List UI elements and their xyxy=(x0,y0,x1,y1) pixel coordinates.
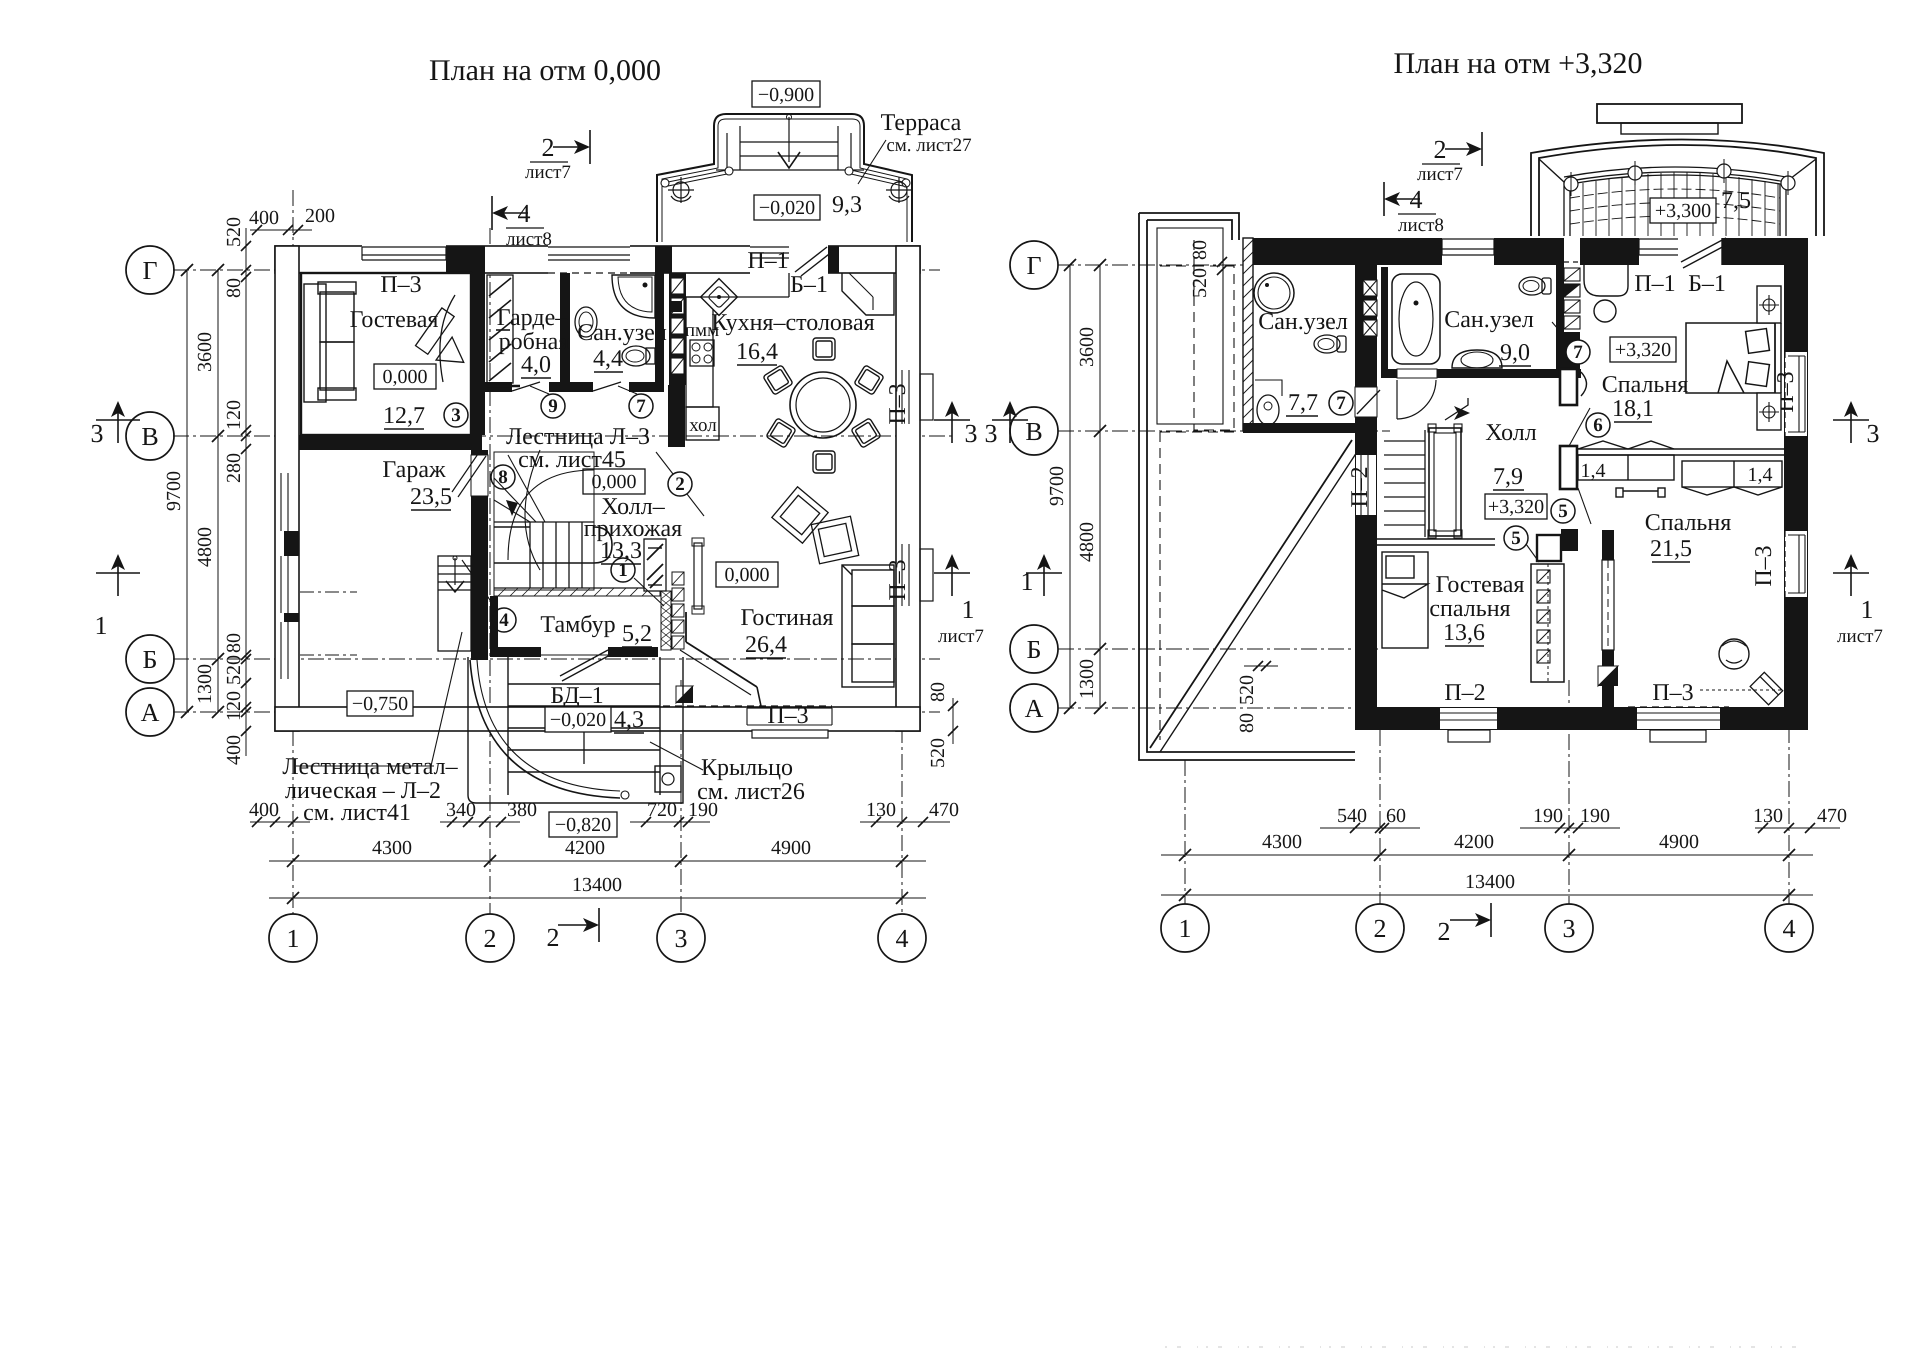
wall гардеробная/санузел partition xyxy=(560,273,570,390)
divider wall спальня 18,1/21,5 xyxy=(1577,448,1784,450)
window П-3 right wall bedroom 21,5 xyxy=(1751,531,1807,597)
sofa living room xyxy=(842,565,894,687)
metal stair in garage xyxy=(438,556,471,651)
svg-text:3: 3 xyxy=(1867,419,1880,448)
svg-text:В: В xyxy=(1025,417,1042,446)
svg-text:7: 7 xyxy=(1336,393,1346,414)
bottom wall windows right plan xyxy=(1440,680,1497,742)
stair door arc right plan xyxy=(1397,380,1436,419)
svg-text:5,2: 5,2 xyxy=(622,621,652,647)
axis line 1 xyxy=(292,190,294,914)
door jamb pier холл/спальня 18,1 xyxy=(1560,369,1577,405)
svg-text:хол: хол xyxy=(689,415,717,436)
svg-text:12,7: 12,7 xyxy=(383,403,425,429)
svg-text:80: 80 xyxy=(1236,713,1258,733)
axis bubble 4 xyxy=(878,914,926,962)
svg-text:520: 520 xyxy=(223,655,245,685)
porch up arrow xyxy=(583,716,585,764)
sofa Гостевая xyxy=(304,282,356,402)
svg-text:4,0: 4,0 xyxy=(521,352,551,378)
svg-text:П–2: П–2 xyxy=(1347,466,1373,507)
wardrobe hatch гардеробная xyxy=(487,275,513,383)
bottom dim row 13400 right xyxy=(1161,894,1813,896)
terrace entry arrow xyxy=(788,117,790,162)
section mark 3 right xyxy=(951,403,953,443)
svg-text:520: 520 xyxy=(1189,268,1211,298)
wall санузел 9,0 west xyxy=(1381,267,1388,377)
wall кухня west black xyxy=(669,273,686,385)
axis line 1 right xyxy=(1184,760,1186,904)
svg-text:80: 80 xyxy=(927,682,949,702)
svg-text:П–3: П–3 xyxy=(380,272,421,298)
section mark 3 left xyxy=(117,403,119,443)
svg-text:0,000: 0,000 xyxy=(725,564,770,586)
pedestal sink санузел 7,7 xyxy=(1257,395,1279,425)
svg-text:Гарде–: Гарде– xyxy=(497,305,568,331)
vent boxes санузел 9,0 east wall xyxy=(1564,268,1580,329)
garage right wall xyxy=(471,450,488,660)
svg-text:лист8: лист8 xyxy=(1398,215,1444,236)
svg-text:БД–1: БД–1 xyxy=(550,683,603,709)
svg-text:Сан.узел: Сан.узел xyxy=(577,320,667,346)
svg-text:1: 1 xyxy=(1021,567,1034,596)
svg-text:0,000: 0,000 xyxy=(383,366,428,388)
axis bubble 2 right xyxy=(1356,904,1404,952)
bed спальня 18,1 xyxy=(1686,323,1781,393)
vertical dim line 9700 xyxy=(186,270,188,712)
svg-text:540: 540 xyxy=(1337,805,1367,827)
svg-text:4200: 4200 xyxy=(1454,831,1494,853)
svg-text:Б: Б xyxy=(143,645,158,674)
roof inner solid rect top xyxy=(1157,228,1223,424)
bottom wall window П-3 xyxy=(663,703,832,738)
svg-text:−0,020: −0,020 xyxy=(550,709,606,731)
svg-text:4900: 4900 xyxy=(1659,831,1699,853)
svg-text:Лестница метал–: Лестница метал– xyxy=(282,754,458,780)
top wall pier black 1 xyxy=(446,246,485,273)
axis bubble Б xyxy=(126,635,174,683)
svg-text:400: 400 xyxy=(223,735,245,765)
terrace right plan arch xyxy=(1531,140,1824,237)
window top wall right plan 1 xyxy=(1442,237,1494,266)
svg-text:Терраса: Терраса xyxy=(881,110,962,136)
hall/living wall upper xyxy=(668,385,685,447)
porch curved rail xyxy=(470,660,620,798)
svg-text:2: 2 xyxy=(1438,917,1451,946)
terrace door П-1 xyxy=(750,245,789,274)
svg-text:П–1: П–1 xyxy=(747,248,788,274)
terrace bolts right plan xyxy=(1564,164,1795,191)
bottom dim row 4300/4200/4900 xyxy=(269,860,926,862)
level box -0,820 xyxy=(549,812,617,837)
svg-text:лист7: лист7 xyxy=(525,162,571,183)
roof dashed lines xyxy=(1160,240,1240,740)
svg-text:Г: Г xyxy=(142,256,157,285)
svg-text:520: 520 xyxy=(223,217,245,247)
svg-text:2: 2 xyxy=(542,133,555,162)
svg-text:Крыльцо: Крыльцо xyxy=(701,755,793,781)
svg-text:200: 200 xyxy=(305,205,335,227)
svg-text:4300: 4300 xyxy=(1262,831,1302,853)
axis line 3 right xyxy=(1568,680,1570,904)
axis bubble 3 xyxy=(657,914,705,962)
wall between гостевая спальня and спальня 21,5 xyxy=(1602,530,1614,707)
section mark 1 left of right plan xyxy=(1043,556,1045,596)
svg-text:190: 190 xyxy=(1533,805,1563,827)
svg-text:План на отм 0,000: План на отм 0,000 xyxy=(429,54,661,87)
svg-text:8: 8 xyxy=(498,467,508,488)
axis bubble 2 xyxy=(466,914,514,962)
svg-text:120: 120 xyxy=(223,691,245,721)
marker 2 xyxy=(668,472,692,496)
svg-text:26,4: 26,4 xyxy=(745,632,787,658)
marker 3 circle xyxy=(444,403,468,427)
axis line 2 xyxy=(489,228,491,914)
svg-text:7,9: 7,9 xyxy=(1493,464,1523,490)
terrace labels right plan xyxy=(1650,198,1716,223)
svg-text:Холл: Холл xyxy=(1485,420,1536,446)
svg-text:3: 3 xyxy=(985,419,998,448)
svg-text:1: 1 xyxy=(287,924,300,953)
svg-text:4,4: 4,4 xyxy=(593,346,623,372)
svg-text:Б: Б xyxy=(1027,635,1042,664)
svg-text:+3,320: +3,320 xyxy=(1615,339,1671,361)
axis line В right xyxy=(1058,430,1390,432)
porch xyxy=(468,657,683,803)
svg-text:5: 5 xyxy=(1558,501,1568,522)
kitchen stove xyxy=(690,340,714,366)
axis bubble 3 right xyxy=(1545,904,1593,952)
axis line Б right xyxy=(1058,648,1380,650)
right wall window П-3 living xyxy=(885,544,933,606)
right wall window П-3 kitchen xyxy=(885,370,933,425)
svg-text:+3,300: +3,300 xyxy=(1655,200,1711,222)
svg-text:7: 7 xyxy=(1573,342,1583,363)
marker 5 right plan b xyxy=(1504,526,1528,550)
bottom dim row 4300/4200/4900 right xyxy=(1161,854,1813,856)
terrace chimney top xyxy=(1597,104,1742,123)
svg-text:80: 80 xyxy=(1189,240,1211,260)
window П-3 right wall bedroom 18,1 xyxy=(1773,352,1807,436)
axis line Б xyxy=(173,658,940,660)
vestibule walls xyxy=(490,596,498,656)
svg-text:−0,820: −0,820 xyxy=(555,814,611,836)
right wall pier black xyxy=(1784,436,1808,531)
svg-text:лист7: лист7 xyxy=(1417,164,1463,185)
top wall pier black 2 xyxy=(655,246,672,273)
svg-text:П–3: П–3 xyxy=(767,703,808,729)
svg-text:План на отм +3,320: План на отм +3,320 xyxy=(1394,47,1643,80)
terrace corner bolts xyxy=(668,177,912,203)
sink санузел xyxy=(575,307,597,337)
svg-text:4300: 4300 xyxy=(372,837,412,859)
svg-text:Сан.узел: Сан.узел xyxy=(1444,307,1534,333)
armchair Гостевая top right xyxy=(416,295,472,382)
svg-text:4: 4 xyxy=(1783,914,1796,943)
wall санузел/кухня xyxy=(655,273,664,392)
svg-text:80: 80 xyxy=(223,633,245,653)
svg-text:3: 3 xyxy=(675,924,688,953)
door opening санузел 7,7 xyxy=(1355,387,1377,417)
svg-text:Б–1: Б–1 xyxy=(790,272,828,298)
svg-text:спальня: спальня xyxy=(1429,596,1510,622)
axis bubble В right xyxy=(1010,407,1058,455)
window W1 top Гостевая xyxy=(356,245,452,274)
wall санузел 9,0 east xyxy=(1556,265,1564,378)
vent boxes right plan xyxy=(1363,280,1377,336)
vertical dim 9700 right xyxy=(1069,265,1071,708)
svg-text:А: А xyxy=(141,698,160,727)
corner cabinet top right kitchen xyxy=(842,273,894,315)
svg-text:7,7: 7,7 xyxy=(1288,390,1318,416)
svg-text:П–3: П–3 xyxy=(1751,545,1777,586)
svg-text:3: 3 xyxy=(91,419,104,448)
svg-text:Кухня–столовая: Кухня–столовая xyxy=(711,310,874,336)
axis bubble А right xyxy=(1010,684,1058,732)
svg-text:13400: 13400 xyxy=(572,874,622,896)
wall garage top xyxy=(299,435,482,450)
marker 6 right plan xyxy=(1586,413,1610,437)
nightstand top xyxy=(1757,286,1781,323)
svg-text:7: 7 xyxy=(636,396,646,417)
annex left wall санузел xyxy=(1243,238,1253,431)
svg-text:60: 60 xyxy=(1386,805,1406,827)
svg-text:В: В xyxy=(141,422,158,451)
marker 7 xyxy=(629,394,653,418)
section mark 3 right of right plan xyxy=(1850,403,1852,443)
vestibule top hatch strip xyxy=(494,588,660,596)
vertical dim chain 3600/4800/1300 xyxy=(217,270,219,712)
left wall main right plan xyxy=(1355,238,1377,730)
toilet санузел 7,7 xyxy=(1314,335,1346,353)
wall гостевая спальня north xyxy=(1377,538,1495,540)
svg-text:130: 130 xyxy=(866,799,896,821)
svg-text:9700: 9700 xyxy=(1046,466,1068,506)
svg-text:470: 470 xyxy=(1817,805,1847,827)
vent boxes kitchen wall xyxy=(671,278,684,374)
window W2 top санузел xyxy=(548,245,630,274)
bath санузел 9,0 xyxy=(1392,274,1440,364)
stair fan treads xyxy=(494,455,545,522)
right wall right plan xyxy=(1784,238,1808,730)
svg-text:Гостиная: Гостиная xyxy=(741,605,834,631)
door jamb pier холл/спальня 21,5 xyxy=(1560,446,1577,489)
axis bubble 1 xyxy=(269,914,317,962)
svg-text:см. лист26: см. лист26 xyxy=(697,779,805,805)
svg-text:2: 2 xyxy=(1434,135,1447,164)
room Гостевая walls xyxy=(301,273,471,435)
svg-text:9,3: 9,3 xyxy=(832,192,862,218)
top dim 400/200 xyxy=(250,229,312,231)
svg-text:9700: 9700 xyxy=(163,471,185,511)
svg-text:0,000: 0,000 xyxy=(592,471,637,493)
svg-text:13400: 13400 xyxy=(1465,871,1515,893)
svg-text:18,1: 18,1 xyxy=(1612,396,1654,422)
axis line 4 xyxy=(901,700,903,914)
section mark 1 right of right plan лист7 xyxy=(1850,556,1852,596)
armchairs living room xyxy=(772,487,859,564)
svg-text:470: 470 xyxy=(929,799,959,821)
axis line В xyxy=(173,435,955,437)
roof diagonal valley xyxy=(1150,440,1352,748)
svg-text:520: 520 xyxy=(927,738,949,768)
svg-text:см. лист41: см. лист41 xyxy=(303,800,411,826)
svg-text:П–3: П–3 xyxy=(1652,680,1693,706)
svg-text:−0,750: −0,750 xyxy=(352,693,408,715)
svg-text:3600: 3600 xyxy=(1076,327,1098,367)
kitchen counter top xyxy=(686,296,789,298)
round sink санузел 7,7 xyxy=(1254,273,1294,313)
svg-text:1: 1 xyxy=(962,595,975,624)
wall санузел 9,0 bottom xyxy=(1381,369,1581,378)
svg-text:1: 1 xyxy=(95,611,108,640)
svg-text:А: А xyxy=(1025,694,1044,723)
svg-text:3600: 3600 xyxy=(194,332,216,372)
svg-text:400: 400 xyxy=(249,799,279,821)
svg-text:3: 3 xyxy=(451,405,461,426)
axis bubble 1 right xyxy=(1161,904,1209,952)
nightstand bottom xyxy=(1757,393,1781,430)
svg-text:+3,320: +3,320 xyxy=(1488,496,1544,518)
svg-text:1300: 1300 xyxy=(194,664,216,704)
svg-text:Спальня: Спальня xyxy=(1645,510,1732,536)
svg-text:Гостевая: Гостевая xyxy=(1436,572,1525,598)
desk corner спальня 21,5 xyxy=(1750,672,1783,705)
svg-text:1,4: 1,4 xyxy=(1581,460,1606,482)
armchair round спальня 21,5 xyxy=(1719,639,1749,669)
svg-text:16,4: 16,4 xyxy=(736,339,778,365)
svg-text:7,5: 7,5 xyxy=(1721,188,1751,214)
axis line 3 xyxy=(680,680,682,914)
svg-text:280: 280 xyxy=(223,453,245,483)
svg-text:П–1: П–1 xyxy=(1634,271,1675,297)
terrace railing xyxy=(668,170,903,186)
door Б-1 opening xyxy=(789,245,828,274)
svg-text:9,0: 9,0 xyxy=(1500,340,1530,366)
svg-text:1,4: 1,4 xyxy=(1748,464,1773,486)
axis line А right xyxy=(1058,707,1380,709)
hidden beam lines garage xyxy=(300,591,357,593)
svg-text:4900: 4900 xyxy=(771,837,811,859)
kitchen counter xyxy=(686,297,713,407)
svg-text:9: 9 xyxy=(548,396,558,417)
axis line Г right xyxy=(1058,264,1250,266)
svg-text:3: 3 xyxy=(965,419,978,448)
marker 5 right plan a xyxy=(1551,499,1575,523)
wardrobe with hangers xyxy=(1531,564,1564,682)
bottom wall right plan xyxy=(1355,707,1808,730)
svg-text:1: 1 xyxy=(1861,595,1874,624)
axis line 2 right xyxy=(1379,730,1381,904)
section mark 1 left xyxy=(117,556,119,596)
axis bubble В xyxy=(126,412,174,460)
toilet санузел xyxy=(622,346,655,366)
svg-text:П–3: П–3 xyxy=(885,383,911,424)
svg-text:4: 4 xyxy=(896,924,909,953)
axis bubble Г xyxy=(126,246,174,294)
exterior wall right xyxy=(896,246,920,731)
annex left hatch xyxy=(1243,240,1253,430)
marker 9 xyxy=(541,394,565,418)
axis line 4 right xyxy=(1788,700,1790,904)
bottom dim row 13400 xyxy=(269,897,926,899)
svg-text:1: 1 xyxy=(618,560,628,581)
toilet санузел 9,0 top xyxy=(1519,277,1551,295)
svg-text:Г: Г xyxy=(1026,251,1041,280)
svg-text:4800: 4800 xyxy=(1076,522,1098,562)
stair right plan xyxy=(1384,424,1462,538)
box 0,000 hall xyxy=(583,469,645,494)
svg-text:190: 190 xyxy=(1580,805,1610,827)
svg-text:80: 80 xyxy=(223,278,245,298)
left wall garage windows xyxy=(276,473,299,679)
dining table xyxy=(790,372,856,438)
wall санузел bottom xyxy=(485,382,512,392)
door Б-1 leaf diagonal xyxy=(795,247,827,272)
svg-text:−0,900: −0,900 xyxy=(758,84,814,106)
porch column xyxy=(655,766,681,792)
svg-text:4,3: 4,3 xyxy=(614,707,644,733)
svg-text:2: 2 xyxy=(675,474,685,495)
svg-text:Сан.узел: Сан.узел xyxy=(1258,309,1348,335)
svg-text:−0,020: −0,020 xyxy=(759,197,815,219)
bottom dim row small xyxy=(250,821,310,823)
terrace steps xyxy=(716,126,864,170)
svg-text:1: 1 xyxy=(1179,914,1192,943)
axis bubble 4 right xyxy=(1765,904,1813,952)
svg-text:Б–1: Б–1 xyxy=(1688,271,1726,297)
curved duct corner спальня 18,1 xyxy=(1584,265,1628,296)
svg-text:21,5: 21,5 xyxy=(1650,536,1692,562)
stair block xyxy=(494,452,660,590)
svg-text:Тамбур: Тамбур xyxy=(540,612,615,638)
wall Гостевая right xyxy=(471,273,485,435)
svg-text:Гараж: Гараж xyxy=(382,457,446,483)
svg-text:П–2: П–2 xyxy=(1444,680,1485,706)
svg-text:2: 2 xyxy=(547,923,560,952)
vent column right of vestibule xyxy=(672,572,684,649)
svg-text:лист7: лист7 xyxy=(1837,626,1883,647)
section mark 3 left of right plan xyxy=(1009,403,1011,443)
axis bubble А xyxy=(126,688,174,736)
faint scan artifact line bottom xyxy=(1165,1346,1800,1348)
window П-1 top wall right plan xyxy=(1639,237,1678,266)
sink bowl санузел 9,0 xyxy=(1452,350,1502,368)
axis bubble Б right xyxy=(1010,625,1058,673)
bed гостевая спальня xyxy=(1382,552,1428,648)
dashed vent opening top wall xyxy=(1564,237,1580,265)
vertical dim chain right 3600/4800/1300 xyxy=(1099,265,1101,708)
svg-text:см. лист27: см. лист27 xyxy=(886,135,971,156)
svg-text:13,6: 13,6 xyxy=(1443,620,1485,646)
svg-text:5: 5 xyxy=(1511,528,1521,549)
marker 8 xyxy=(491,465,515,489)
svg-text:4200: 4200 xyxy=(565,837,605,859)
svg-text:Гостевая: Гостевая xyxy=(350,307,439,333)
cross-hatch strip xyxy=(661,591,671,650)
vestibule door diagonal xyxy=(560,650,608,676)
marker 4 xyxy=(492,608,516,632)
annex bottom wall xyxy=(1243,423,1377,433)
living room diagonal chamfer xyxy=(686,642,757,687)
svg-text:6: 6 xyxy=(1593,415,1603,436)
svg-text:3: 3 xyxy=(1563,914,1576,943)
axis bubble Г right xyxy=(1010,241,1058,289)
kitchen sink diamond xyxy=(701,279,738,316)
fridge хол xyxy=(686,407,719,440)
svg-text:23,5: 23,5 xyxy=(410,484,452,510)
labels Гостиная xyxy=(716,562,778,587)
